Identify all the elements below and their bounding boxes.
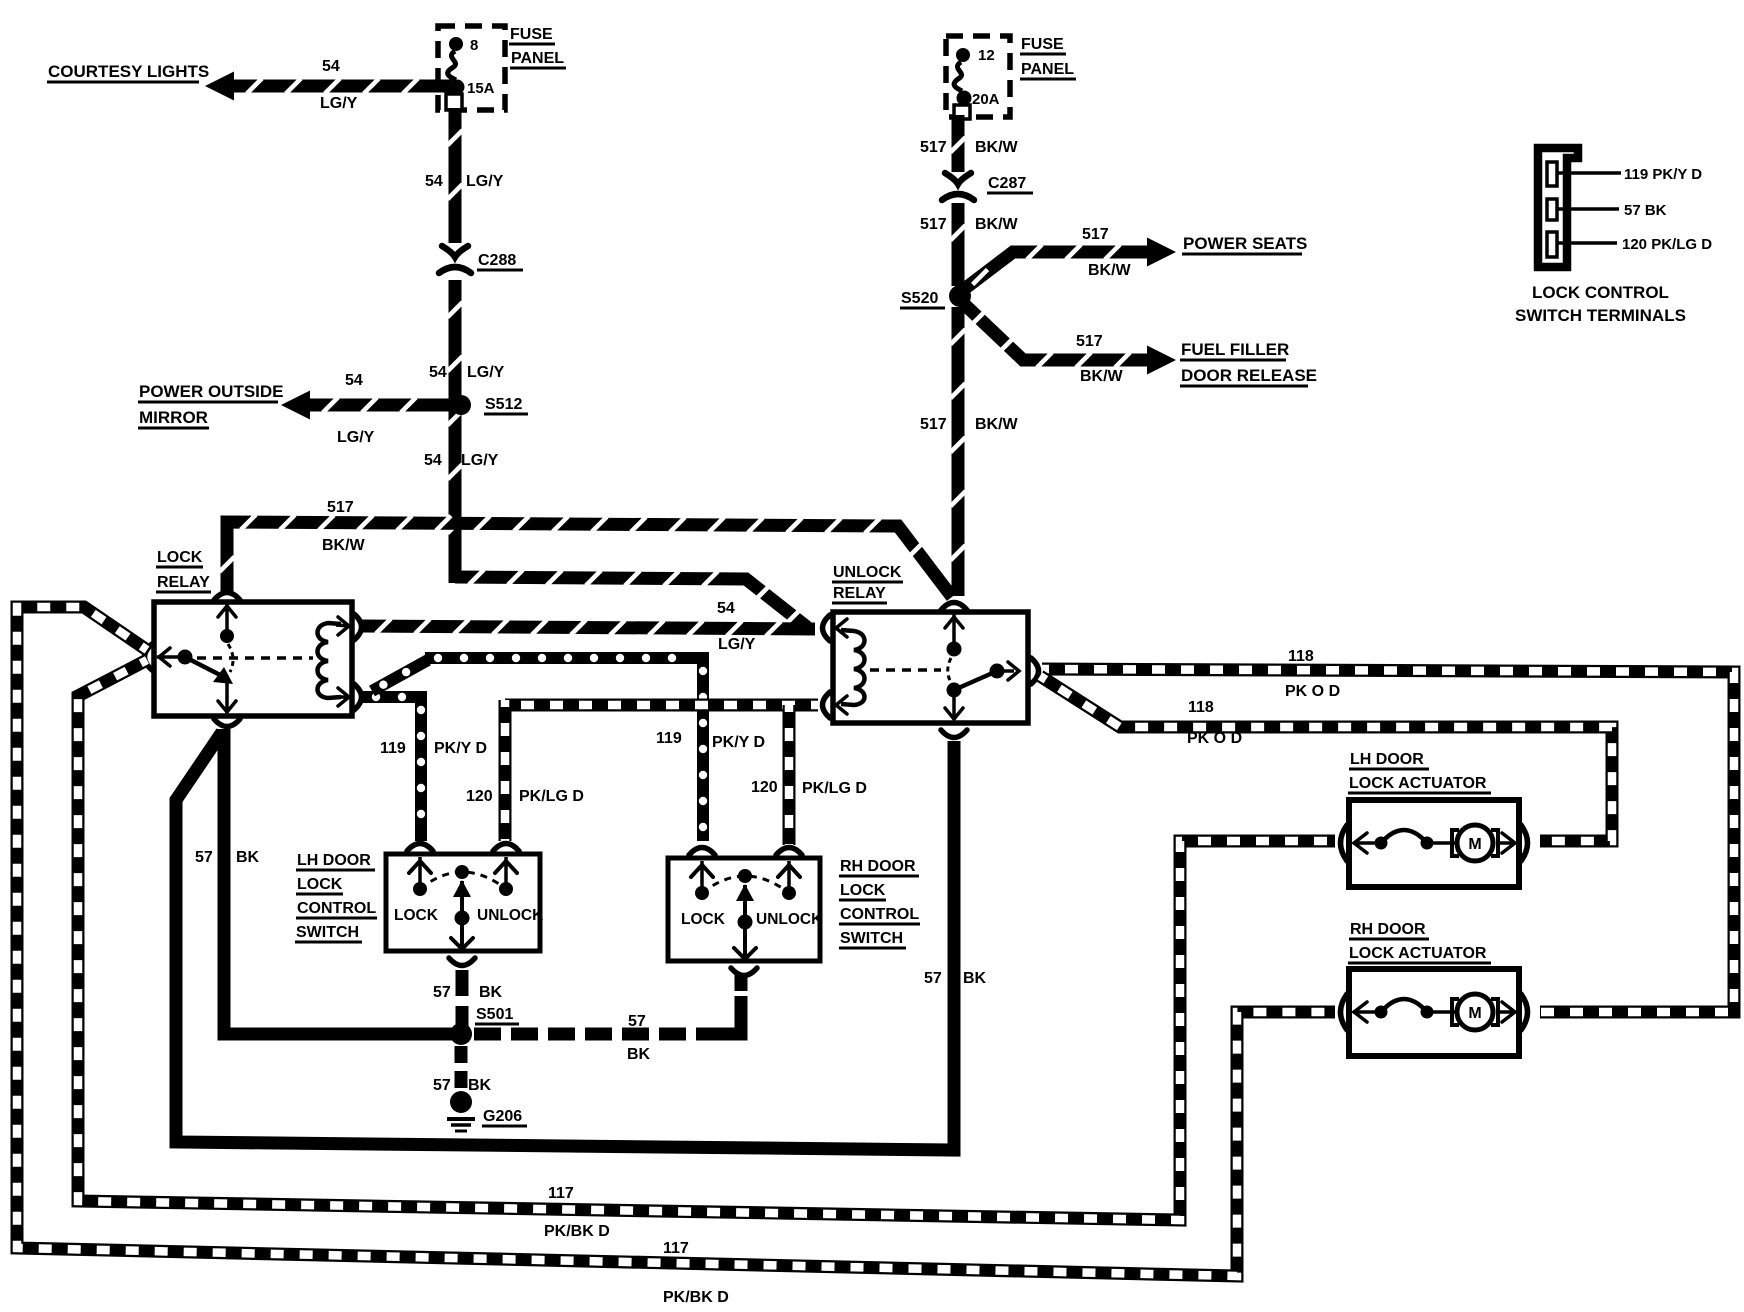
ground symbol G206 [447, 1117, 475, 1121]
unlock relay top pin socket [941, 603, 967, 611]
svg-text:LH DOOR: LH DOOR [297, 852, 371, 869]
svg-text:517: 517 [920, 139, 947, 156]
unlock relay right pin socket [1031, 658, 1039, 684]
svg-text:LOCK: LOCK [681, 911, 726, 928]
svg-text:BK: BK [479, 984, 503, 1001]
wire 57 BK RH switch drop [712, 996, 741, 1034]
wire 57 BK LH switch to S501 [456, 970, 469, 1030]
svg-text:LOCK CONTROL: LOCK CONTROL [1532, 283, 1669, 302]
svg-text:CONTROL: CONTROL [840, 906, 919, 923]
svg-text:LOCK ACTUATOR: LOCK ACTUATOR [1349, 945, 1487, 962]
RH door lock actuator left pin [1353, 1010, 1376, 1014]
svg-text:PK O D: PK O D [1285, 683, 1340, 700]
svg-text:57: 57 [628, 1013, 646, 1030]
unlock relay left upper pin socket [823, 615, 831, 641]
unlock relay top pin [952, 614, 956, 647]
svg-text:PK/BK D: PK/BK D [544, 1223, 610, 1240]
svg-text:BK/W: BK/W [322, 537, 366, 554]
svg-text:120: 120 [466, 788, 493, 805]
svg-text:LOCK: LOCK [394, 907, 439, 924]
svg-text:PK/LG D: PK/LG D [802, 780, 867, 797]
svg-text:G206: G206 [483, 1108, 522, 1125]
wire 57 BK RH switch drop upper [735, 975, 748, 991]
wire 517 BK/W vertical from fuse panel 2 [951, 115, 966, 172]
wire 57 BK S501 to ground [455, 1046, 468, 1091]
wire 118 PK O D to RH actuator [1042, 669, 1734, 1012]
LH door lock actuator box [1349, 800, 1519, 887]
lock relay pin to 54 wire [336, 625, 350, 626]
svg-text:LOCK: LOCK [297, 876, 343, 893]
svg-text:BK/W: BK/W [975, 416, 1019, 433]
svg-text:54: 54 [429, 364, 447, 381]
svg-text:C288: C288 [478, 252, 516, 269]
svg-text:517: 517 [1082, 226, 1109, 243]
LH switch bottom pin socket [449, 958, 475, 966]
svg-text:S501: S501 [476, 1006, 513, 1023]
svg-text:C287: C287 [988, 175, 1026, 192]
lock relay dashed link to coil [197, 656, 313, 660]
svg-text:LOCK: LOCK [157, 549, 203, 566]
svg-text:PK/Y D: PK/Y D [712, 734, 765, 751]
terminal 2 lead [1558, 207, 1619, 211]
LH door lock actuator motor M [1452, 830, 1459, 856]
svg-text:54: 54 [322, 58, 340, 75]
fuse panel 1 wire exit square [446, 94, 462, 110]
svg-text:57: 57 [433, 1077, 451, 1094]
svg-text:BK: BK [627, 1046, 651, 1063]
connector C287 [945, 173, 971, 184]
wire 117 PK/BK D outer loop [17, 607, 1335, 1276]
terminal 2 [1547, 199, 1557, 220]
fuse panel 2 wire exit square [954, 105, 970, 119]
svg-text:FUSE: FUSE [510, 26, 553, 43]
wire 517 BK/W to fuel filler door release [963, 303, 1148, 368]
LH switch unlock contact [504, 857, 508, 884]
lock relay coil [318, 623, 342, 698]
wire 54 LG/Y to power outside mirror [309, 398, 452, 413]
svg-text:57: 57 [924, 970, 942, 987]
lock relay bottom pin [225, 681, 229, 713]
fuse 20A symbol [956, 48, 970, 62]
terminal 3 lead [1558, 241, 1617, 245]
RH door lock actuator box [1349, 969, 1519, 1056]
unlock relay bottom pin link [952, 690, 956, 720]
svg-text:119: 119 [656, 730, 682, 747]
svg-text:RELAY: RELAY [157, 574, 210, 591]
svg-text:COURTESY LIGHTS: COURTESY LIGHTS [48, 62, 209, 81]
svg-text:CONTROL: CONTROL [297, 900, 376, 917]
arrow to power seats [1147, 238, 1176, 267]
svg-text:119: 119 [380, 740, 406, 757]
svg-text:PK/BK D: PK/BK D [663, 1289, 729, 1306]
LH door lock actuator contact dots and jumper arc [1375, 837, 1388, 850]
wire 118 PK O D to LH actuator [1040, 676, 1612, 841]
LH door lock actuator left pin socket [1341, 825, 1348, 861]
RH switch bottom pin socket [731, 968, 757, 976]
lock relay travel arc (dashed) [228, 644, 233, 672]
RH switch unlock contact [787, 861, 791, 888]
lock relay top pin socket [214, 593, 240, 601]
svg-text:BK: BK [468, 1077, 492, 1094]
terminal 1 [1547, 162, 1557, 186]
lock relay right upper pin socket [354, 614, 362, 640]
lock relay left pin socket [145, 644, 153, 670]
svg-text:PK/LG D: PK/LG D [519, 788, 584, 805]
svg-text:SWITCH TERMINALS: SWITCH TERMINALS [1515, 306, 1686, 325]
lock relay bottom pin socket [214, 719, 240, 727]
svg-text:FUEL FILLER: FUEL FILLER [1181, 340, 1289, 359]
svg-text:S512: S512 [485, 396, 522, 413]
wire 57 BK S501 to RH switch (dashed) [474, 1028, 714, 1041]
RH door lock actuator contact dots and jumper arc [1375, 1006, 1388, 1019]
svg-text:UNLOCK: UNLOCK [833, 564, 902, 581]
wire 120 PK/LG D to RH switch [783, 705, 796, 845]
svg-text:118: 118 [1288, 648, 1314, 665]
svg-text:54: 54 [717, 600, 735, 617]
svg-text:POWER OUTSIDE: POWER OUTSIDE [139, 382, 284, 401]
wire 54 LG/Y horizontal run to unlock relay [455, 570, 807, 627]
svg-text:BK/W: BK/W [1080, 368, 1124, 385]
svg-text:BK/W: BK/W [1088, 262, 1132, 279]
svg-text:120 PK/LG D: 120 PK/LG D [1622, 236, 1712, 253]
svg-text:M: M [1468, 836, 1481, 853]
svg-text:M: M [1468, 1005, 1481, 1022]
wire 57 BK lock relay to S501 [224, 729, 452, 1034]
svg-text:S520: S520 [901, 290, 938, 307]
wire 117 PK/BK D inner loop [78, 660, 1335, 1220]
unlock relay dashed link to coil [870, 668, 941, 672]
svg-text:15A: 15A [467, 80, 495, 97]
svg-text:LH DOOR: LH DOOR [1350, 751, 1424, 768]
lock relay box [154, 602, 352, 716]
svg-text:20A: 20A [972, 91, 1000, 108]
wire 54 LG/Y lock relay to unlock relay [362, 619, 815, 637]
svg-text:UNLOCK: UNLOCK [477, 907, 544, 924]
arrow to courtesy lights [205, 72, 234, 101]
svg-text:PANEL: PANEL [511, 50, 564, 67]
wire 517 BK/W lock relay feed [220, 515, 953, 597]
wire 120 PK/LG D from unlock relay [505, 699, 818, 712]
RH door lock actuator right pin [1498, 1010, 1514, 1014]
svg-text:RH DOOR: RH DOOR [840, 858, 916, 875]
svg-text:BK/W: BK/W [975, 216, 1019, 233]
lock relay left pin [157, 655, 178, 659]
unlock relay coil [841, 630, 865, 705]
svg-text:LG/Y: LG/Y [466, 173, 504, 190]
svg-text:517: 517 [327, 499, 354, 516]
fuse panel 1 (dashed box) [438, 26, 505, 110]
splice S520 [949, 285, 971, 307]
unlock relay armature [947, 683, 962, 698]
LH switch wiper dot and travel arc [455, 865, 469, 879]
svg-text:LG/Y: LG/Y [461, 452, 499, 469]
svg-text:517: 517 [920, 416, 947, 433]
wire 119 PK/Y D diagonal [372, 660, 428, 691]
svg-text:54: 54 [425, 173, 443, 190]
svg-text:57: 57 [433, 984, 451, 1001]
svg-text:54: 54 [424, 452, 442, 469]
RH door lock control switch box [668, 858, 820, 961]
lock relay pin to 119 wire [336, 695, 350, 699]
svg-text:LG/Y: LG/Y [718, 636, 756, 653]
svg-text:57: 57 [195, 849, 213, 866]
terminal 1 lead [1558, 171, 1621, 175]
svg-text:BK: BK [236, 849, 260, 866]
svg-text:RELAY: RELAY [833, 585, 886, 602]
LH door lock control switch box [386, 854, 540, 951]
RH door lock actuator left pin socket [1341, 994, 1348, 1030]
svg-text:LG/Y: LG/Y [320, 95, 358, 112]
svg-text:LOCK ACTUATOR: LOCK ACTUATOR [1349, 775, 1487, 792]
svg-text:BK: BK [963, 970, 987, 987]
LH switch lock terminal socket [407, 844, 433, 852]
svg-text:UNLOCK: UNLOCK [756, 911, 823, 928]
terminal 3 [1547, 232, 1557, 257]
splice S501 [450, 1023, 472, 1045]
wire 119 PK/Y D to RH switch [425, 654, 707, 841]
svg-text:FUSE: FUSE [1021, 36, 1064, 53]
svg-text:PK/Y D: PK/Y D [434, 740, 487, 757]
svg-text:117: 117 [548, 1185, 574, 1202]
LH door lock actuator left pin [1353, 841, 1376, 845]
wire 517 BK/W to power seats [963, 245, 1148, 291]
svg-text:117: 117 [663, 1240, 689, 1257]
LH door lock actuator right pin [1498, 841, 1514, 845]
svg-text:8: 8 [470, 37, 478, 54]
svg-text:RH DOOR: RH DOOR [1350, 921, 1426, 938]
unlock relay travel arc (dashed) [948, 658, 952, 684]
svg-text:12: 12 [978, 47, 995, 64]
wire 54 LG/Y courtesy lights feed [233, 79, 452, 94]
svg-text:120: 120 [751, 779, 778, 796]
ground G206 [450, 1091, 472, 1113]
LH switch unlock terminal socket [493, 844, 519, 852]
wire 517 BK/W vertical to unlock relay [951, 307, 966, 596]
RH door lock actuator motor M [1452, 999, 1459, 1025]
wire 54 LG/Y vertical from fuse panel 1 [448, 108, 463, 243]
svg-text:DOOR RELEASE: DOOR RELEASE [1181, 366, 1317, 385]
svg-text:517: 517 [920, 216, 947, 233]
fuse 15A symbol [449, 37, 463, 51]
RH door lock actuator right pin socket [1521, 994, 1528, 1030]
svg-text:LG/Y: LG/Y [337, 429, 375, 446]
svg-text:54: 54 [345, 372, 363, 389]
RH switch unlock terminal socket [776, 848, 802, 856]
unlock relay left upper pin [836, 619, 847, 637]
svg-text:LOCK: LOCK [840, 882, 886, 899]
wire 57 BK lock relay to unlock relay [176, 732, 954, 1150]
splice S512 [451, 395, 471, 415]
connector C288 [442, 246, 468, 257]
unlock relay bottom pin socket [941, 730, 967, 738]
LH door lock actuator right pin socket [1521, 825, 1528, 861]
svg-text:SWITCH: SWITCH [296, 924, 359, 941]
arrow to fuel filler door release [1147, 346, 1176, 375]
svg-text:PANEL: PANEL [1021, 61, 1074, 78]
svg-text:517: 517 [1076, 333, 1103, 350]
lock relay right lower pin socket [354, 684, 362, 710]
svg-text:POWER SEATS: POWER SEATS [1183, 234, 1307, 253]
LH switch plunger [460, 881, 464, 948]
lock relay armature [185, 657, 224, 677]
RH switch lock contact [700, 861, 704, 888]
unlock relay left lower pin [836, 696, 847, 714]
svg-text:118: 118 [1188, 699, 1214, 716]
RH switch lock terminal socket [689, 848, 715, 856]
unlock relay box [833, 612, 1028, 723]
svg-text:LG/Y: LG/Y [467, 364, 505, 381]
svg-text:BK/W: BK/W [975, 139, 1019, 156]
wire 119 PK/Y D to LH switch [363, 693, 425, 841]
lock control switch terminals connector body [1538, 148, 1578, 267]
fuse panel 2 (dashed box) [946, 36, 1010, 117]
svg-text:PK O D: PK O D [1187, 730, 1242, 747]
svg-text:57 BK: 57 BK [1624, 202, 1667, 219]
wire 120 PK/LG D to LH switch [499, 700, 512, 841]
LH switch lock contact [418, 857, 422, 884]
RH switch wiper dot and travel arc [738, 869, 752, 883]
arrow to power outside mirror [281, 391, 310, 420]
unlock relay left lower pin socket [823, 692, 831, 718]
svg-text:SWITCH: SWITCH [840, 930, 903, 947]
RH switch plunger [743, 885, 747, 958]
svg-text:MIRROR: MIRROR [139, 408, 208, 427]
lock relay top pin [225, 604, 229, 634]
svg-text:119 PK/Y D: 119 PK/Y D [1624, 166, 1702, 183]
